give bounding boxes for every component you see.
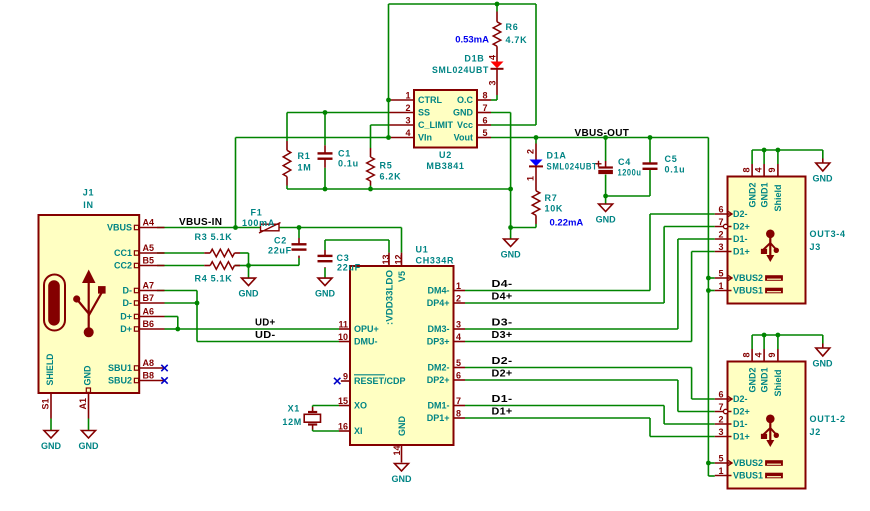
svg-text:D1B: D1B xyxy=(464,54,484,64)
wire D- B7 xyxy=(165,302,198,304)
wire C4 top xyxy=(605,138,607,162)
J3 pin 7 D2+ xyxy=(715,217,750,232)
svg-text:5: 5 xyxy=(718,454,723,464)
capacitor C2 22uF xyxy=(268,236,307,259)
svg-text:22uF: 22uF xyxy=(268,246,292,256)
svg-text:VBUS2: VBUS2 xyxy=(733,273,763,283)
svg-text:4: 4 xyxy=(753,167,763,172)
svg-text:CC1: CC1 xyxy=(114,248,132,258)
J1 pin A7 D- xyxy=(123,281,165,296)
svg-text:0.53mA: 0.53mA xyxy=(455,35,489,46)
svg-text:6: 6 xyxy=(718,390,723,400)
J1 no-connect X on SBU2 xyxy=(161,377,167,383)
wire C3 to VDD33 xyxy=(325,239,389,241)
resistor R1 1M xyxy=(283,141,311,186)
wire D+ B6 xyxy=(165,328,178,330)
svg-text:8: 8 xyxy=(456,409,461,419)
svg-text:DP2+: DP2+ xyxy=(427,375,450,385)
IC U1 CH334R xyxy=(350,245,454,446)
svg-text:Shield: Shield xyxy=(773,369,783,396)
svg-text:5: 5 xyxy=(718,269,723,279)
svg-text:12M: 12M xyxy=(282,417,302,427)
svg-text:OUT1-2: OUT1-2 xyxy=(810,414,846,424)
wire D1A top xyxy=(535,138,537,144)
junction xyxy=(386,98,391,103)
svg-text:UD+: UD+ xyxy=(255,318,276,329)
ground at R3/R4 xyxy=(239,278,260,299)
svg-text:2: 2 xyxy=(405,103,410,113)
svg-text:DM1-: DM1- xyxy=(428,401,450,411)
svg-text:2: 2 xyxy=(526,149,536,154)
svg-text:V5: V5 xyxy=(397,271,407,282)
svg-text:XO: XO xyxy=(354,401,367,411)
wire C5 bottom xyxy=(649,169,651,196)
J1 pin S1 SHIELD xyxy=(40,353,54,430)
svg-text:3: 3 xyxy=(456,320,461,330)
U2 pin 4 VIn xyxy=(390,128,433,143)
svg-text:J3: J3 xyxy=(810,242,821,252)
regulator U2 MB3841 xyxy=(414,90,477,171)
ground below U1 xyxy=(392,464,413,485)
svg-text:D1-: D1- xyxy=(492,394,513,405)
svg-text:UD-: UD- xyxy=(255,330,276,341)
svg-text:4.7K: 4.7K xyxy=(506,35,528,45)
svg-text:VBUS1: VBUS1 xyxy=(733,471,763,481)
svg-text:1: 1 xyxy=(526,176,536,181)
svg-text:1: 1 xyxy=(718,466,723,476)
wire O.C to LED chain xyxy=(491,99,497,101)
U1 pin 14 GND xyxy=(392,416,407,463)
junction xyxy=(508,225,513,230)
ground at C3 xyxy=(315,278,336,299)
junction xyxy=(495,2,500,7)
wire to J3 VBUS2 xyxy=(708,277,714,279)
svg-text:1M: 1M xyxy=(298,163,312,173)
svg-text:D1A: D1A xyxy=(547,151,567,161)
J3 pin 9 Shield xyxy=(767,150,783,212)
J2 pin 2 D1- xyxy=(715,415,748,430)
svg-text:A8: A8 xyxy=(143,358,155,368)
svg-text:CTRL: CTRL xyxy=(418,95,442,105)
svg-text:4: 4 xyxy=(488,55,498,60)
svg-text:D3+: D3+ xyxy=(492,330,513,341)
svg-text:VBUS2: VBUS2 xyxy=(733,458,763,468)
wire D2+ net xyxy=(465,379,678,381)
svg-text:DP3+: DP3+ xyxy=(427,337,450,347)
wire VBUS-OUT vertical to J3/J2 xyxy=(707,138,709,477)
junction xyxy=(776,333,781,338)
J1 pin A6 D+ xyxy=(120,307,164,322)
svg-text:GND: GND xyxy=(453,108,474,118)
svg-text:9: 9 xyxy=(343,372,348,382)
svg-text:D-: D- xyxy=(123,286,133,296)
J1 pin B5 CC2 xyxy=(114,256,165,271)
resistor R4 5.1K xyxy=(195,262,241,284)
svg-text:MB3841: MB3841 xyxy=(426,161,464,171)
junction xyxy=(776,148,781,153)
connector J2 OUT1-2 xyxy=(728,362,846,489)
svg-text:A1: A1 xyxy=(78,398,88,410)
junction xyxy=(706,288,711,293)
svg-text:13: 13 xyxy=(381,254,391,264)
svg-text:A4: A4 xyxy=(143,218,155,228)
ground at J1 S1 xyxy=(41,431,62,452)
wire C_LIMIT xyxy=(371,124,390,126)
svg-text:VBUS: VBUS xyxy=(107,223,132,233)
wire D4+ net xyxy=(465,302,664,304)
U1 pin 7 DM1- xyxy=(428,396,466,411)
ground below C4 xyxy=(596,204,617,225)
wire VBUS-IN left xyxy=(157,227,261,229)
svg-text:D1-: D1- xyxy=(733,234,748,244)
J3 pin 3 D1+ xyxy=(715,242,750,257)
svg-text:J2: J2 xyxy=(810,427,821,437)
svg-text:8: 8 xyxy=(741,352,751,357)
svg-text:9: 9 xyxy=(767,352,777,357)
svg-text:A5: A5 xyxy=(143,243,155,253)
J1 pin B8 SBU2 xyxy=(108,371,165,386)
svg-text:14: 14 xyxy=(392,445,402,455)
J2 pin 7 D2+ xyxy=(715,402,750,417)
svg-text:Vcc: Vcc xyxy=(457,120,473,130)
resistor R6 4.7K xyxy=(493,12,527,62)
wire D4- net xyxy=(465,290,650,292)
svg-text:GND: GND xyxy=(813,174,834,184)
svg-text:7: 7 xyxy=(483,103,488,113)
J1 pin A8 SBU1 xyxy=(108,358,165,373)
connector J1 IN (USB-C receptacle) xyxy=(39,188,140,394)
svg-text:15: 15 xyxy=(338,396,348,406)
wire C2 bottom xyxy=(298,258,300,265)
svg-text:DMU-: DMU- xyxy=(354,337,378,347)
ground below U2 xyxy=(501,239,522,260)
svg-text:4: 4 xyxy=(405,128,410,138)
wire VBUS-IN top bus xyxy=(389,3,537,5)
wire GND from pin7 xyxy=(491,112,511,114)
svg-text:X1: X1 xyxy=(288,404,300,414)
svg-text:4: 4 xyxy=(456,332,461,342)
U2 pin 6 Vcc xyxy=(457,116,491,131)
U1 pin 5 DM2- xyxy=(428,358,466,373)
wire XO xyxy=(313,405,339,407)
svg-text:VBUS-IN: VBUS-IN xyxy=(179,217,222,228)
svg-text:C1: C1 xyxy=(338,149,351,159)
junction xyxy=(762,148,767,153)
J2 pin 3 D1+ xyxy=(715,427,750,442)
svg-text:CC2: CC2 xyxy=(114,261,132,271)
U2 pin 5 Vout xyxy=(454,128,491,143)
U1 pin 12 V5 xyxy=(393,253,407,282)
junction xyxy=(195,301,200,306)
svg-text:D4-: D4- xyxy=(492,279,513,290)
svg-text:100mA: 100mA xyxy=(242,218,275,228)
J2 pin 1 VBUS1 xyxy=(715,466,783,481)
svg-text:A6: A6 xyxy=(143,307,155,317)
svg-text:D2-: D2- xyxy=(733,394,748,404)
wire C3 bottom xyxy=(324,268,326,278)
junction xyxy=(706,461,711,466)
U2 pin 8 O.C xyxy=(457,91,491,106)
J3 pin 6 D2- xyxy=(715,205,748,220)
svg-text:S1: S1 xyxy=(40,398,50,409)
wire UD+ xyxy=(178,328,339,330)
junction xyxy=(706,276,711,281)
junction xyxy=(762,333,767,338)
wire right vertical to Vcc xyxy=(535,4,537,125)
svg-text:U2: U2 xyxy=(439,150,452,160)
J1 pin A1 GND xyxy=(78,365,92,430)
wire C4 bottom to gnd xyxy=(605,175,607,205)
svg-text:4: 4 xyxy=(753,352,763,357)
connector J3 OUT3-4 xyxy=(728,177,846,304)
svg-text:GND: GND xyxy=(79,441,100,451)
U2 pin 1 CTRL xyxy=(390,91,443,106)
junction xyxy=(246,263,251,268)
svg-text:5: 5 xyxy=(456,358,461,368)
wire SS xyxy=(287,112,390,114)
svg-text:OPU+: OPU+ xyxy=(354,324,379,334)
wire top to R6 xyxy=(496,4,498,12)
svg-text:SHIELD: SHIELD xyxy=(45,353,55,385)
J3 pin 8 GND2 xyxy=(741,150,757,208)
svg-text:D2-: D2- xyxy=(733,209,748,219)
J1 pin A5 CC1 xyxy=(114,243,165,258)
wire to C1 top xyxy=(324,113,326,146)
capacitor C4 1200u (polarized) xyxy=(596,157,642,178)
junction xyxy=(508,187,513,192)
svg-text:DP4+: DP4+ xyxy=(427,298,450,308)
svg-text:R3 5.1K: R3 5.1K xyxy=(195,232,233,242)
svg-text:GND: GND xyxy=(596,215,617,225)
wire UD- vertical xyxy=(196,303,198,342)
svg-text:GND: GND xyxy=(239,289,260,299)
wire D1+ net xyxy=(465,417,650,419)
svg-text:10K: 10K xyxy=(545,204,564,214)
U2 pin 3 C_LIMIT xyxy=(390,116,454,131)
svg-text:D+: D+ xyxy=(120,312,132,322)
svg-text:GND: GND xyxy=(82,365,92,386)
wire ground bus under U2 xyxy=(287,188,511,190)
svg-text:D2+: D2+ xyxy=(733,222,750,232)
svg-text:7: 7 xyxy=(456,396,461,406)
svg-text:C_LIMIT: C_LIMIT xyxy=(418,120,454,130)
svg-text:2: 2 xyxy=(718,230,723,240)
svg-text:VBUS1: VBUS1 xyxy=(733,286,763,296)
J1 no-connect X on SBU1 xyxy=(161,365,167,371)
svg-text:2: 2 xyxy=(718,415,723,425)
wire C2 to R4 junction xyxy=(249,264,300,266)
J2 pin 9 Shield xyxy=(767,335,783,397)
capacitor C3 22uF xyxy=(318,250,361,273)
svg-text:SML024UBT: SML024UBT xyxy=(547,162,598,172)
ground at J2 xyxy=(813,348,834,369)
U1 pin 3 DM3- xyxy=(428,320,466,335)
svg-text:SML024UBT: SML024UBT xyxy=(432,65,489,75)
wire to R5 top xyxy=(370,125,372,148)
wire A6 to B6 xyxy=(177,317,179,330)
U2 pin 2 SS xyxy=(390,103,431,118)
U1 pin 15 XO xyxy=(338,396,367,411)
svg-text:J1: J1 xyxy=(83,188,94,198)
crystal X1 12M xyxy=(282,404,320,430)
svg-text:D+: D+ xyxy=(120,324,132,334)
wire to J2 VBUS2 xyxy=(708,462,714,464)
wire D+ A6 xyxy=(165,316,178,318)
svg-text:B6: B6 xyxy=(143,319,155,329)
wire to R1 top xyxy=(286,113,288,142)
J1 pin B6 D+ xyxy=(120,319,164,334)
wire left vertical to CTRL/VIn xyxy=(388,4,390,138)
svg-text:D2+: D2+ xyxy=(492,369,513,380)
svg-text:SS: SS xyxy=(418,108,430,118)
svg-text:IN: IN xyxy=(83,200,93,210)
svg-text:0.1u: 0.1u xyxy=(665,165,686,175)
svg-text:GND: GND xyxy=(41,441,62,451)
wire VBUS-IN right xyxy=(279,227,402,229)
svg-text:D3-: D3- xyxy=(492,318,513,329)
ground at J3 xyxy=(813,163,834,184)
svg-text:VBUS-OUT: VBUS-OUT xyxy=(575,128,630,139)
svg-text:16: 16 xyxy=(338,422,348,432)
svg-text:DM4-: DM4- xyxy=(428,286,450,296)
wire C5 top xyxy=(649,138,651,164)
wire VIn extension xyxy=(236,137,390,139)
fuse F1 100mA xyxy=(242,208,281,234)
svg-text:7: 7 xyxy=(718,402,723,412)
wire D- A7 xyxy=(157,290,197,292)
svg-text:10: 10 xyxy=(338,332,348,342)
U1 pin 13 VDD33LDO xyxy=(381,253,395,325)
J2 pin 8 GND2 xyxy=(741,335,757,393)
svg-text:GND1: GND1 xyxy=(759,367,769,392)
svg-text:R6: R6 xyxy=(506,22,519,32)
svg-text:D-: D- xyxy=(123,298,133,308)
wire D3+ net xyxy=(465,341,692,343)
svg-text:6: 6 xyxy=(456,371,461,381)
ground at J1 A1 xyxy=(79,431,100,452)
J3 pin 2 D1- xyxy=(715,230,748,245)
junction xyxy=(323,187,328,192)
svg-text:C2: C2 xyxy=(274,236,287,246)
wire D3- net xyxy=(465,328,678,330)
svg-text:VIn: VIn xyxy=(418,133,432,143)
junction xyxy=(323,110,328,115)
wire down to VBUS-IN xyxy=(235,138,237,228)
svg-text:Shield: Shield xyxy=(773,184,783,211)
junction xyxy=(175,327,180,332)
svg-text:SBU1: SBU1 xyxy=(108,363,132,373)
svg-text:3: 3 xyxy=(718,427,723,437)
wire to J3 VBUS1 xyxy=(708,290,714,292)
svg-text:D1+: D1+ xyxy=(733,247,750,257)
svg-text:D1+: D1+ xyxy=(733,432,750,442)
svg-text:XI: XI xyxy=(354,426,363,436)
svg-text:DP1+: DP1+ xyxy=(427,413,450,423)
wire D2- net xyxy=(465,367,692,369)
wire R3/R4 to gnd xyxy=(248,253,250,278)
junction xyxy=(233,225,238,230)
junction xyxy=(603,135,608,140)
svg-text::VDD33LDO: :VDD33LDO xyxy=(384,270,394,325)
capacitor C1 0.1u xyxy=(318,145,359,168)
svg-text:GND: GND xyxy=(315,289,336,299)
resistor R5 6.2K xyxy=(367,148,402,186)
svg-text:O.C: O.C xyxy=(457,95,474,105)
junction xyxy=(603,194,608,199)
LED D1A SML024UBT (blue) xyxy=(526,144,598,191)
svg-text:0.1u: 0.1u xyxy=(338,159,359,169)
wire CC1 to R3 xyxy=(157,252,204,254)
svg-text:3: 3 xyxy=(718,242,723,252)
U1 pin 4 DP3+ xyxy=(427,332,465,347)
wire C3 top xyxy=(324,240,326,250)
junction xyxy=(297,225,302,230)
U1 pin 2 DP4+ xyxy=(427,294,465,309)
U1 pin 11 OPU+ xyxy=(338,320,378,335)
svg-text:RESET/CDP: RESET/CDP xyxy=(354,376,406,386)
J1 pin A4 VBUS xyxy=(107,218,165,233)
svg-text:8: 8 xyxy=(483,91,488,101)
svg-text:GND: GND xyxy=(392,474,413,484)
J2 pin 4 GND1 xyxy=(753,335,769,393)
U1 pin 8 DP1+ xyxy=(427,409,465,424)
svg-text:1200u: 1200u xyxy=(618,168,642,178)
resistor R7 10K xyxy=(532,191,563,224)
svg-text:B7: B7 xyxy=(143,293,155,303)
svg-text:C5: C5 xyxy=(665,154,678,164)
wire CC2 to R4 xyxy=(157,265,204,267)
wire C4-C5 bottom xyxy=(606,195,650,197)
svg-text:GND: GND xyxy=(813,359,834,369)
wire UD- xyxy=(197,341,339,343)
svg-text:6.2K: 6.2K xyxy=(380,172,402,182)
svg-text:22uF: 22uF xyxy=(337,263,361,273)
svg-text:2: 2 xyxy=(456,294,461,304)
svg-text:5: 5 xyxy=(483,128,488,138)
svg-text:1: 1 xyxy=(718,281,723,291)
svg-text:3: 3 xyxy=(488,80,498,85)
svg-text:D1-: D1- xyxy=(733,419,748,429)
J3 pin 5 VBUS2 xyxy=(715,269,783,284)
J3 pin 1 VBUS1 xyxy=(715,281,783,296)
wire down to U1 V5 xyxy=(401,228,403,253)
resistor R3 5.1K xyxy=(195,232,241,257)
svg-text:CH334R: CH334R xyxy=(416,256,455,266)
wire C2 top xyxy=(298,228,300,239)
svg-text:B5: B5 xyxy=(143,256,155,266)
svg-text:DM2-: DM2- xyxy=(428,363,450,373)
wire to J2 VBUS1 xyxy=(708,475,714,477)
svg-text:B8: B8 xyxy=(143,371,155,381)
capacitor C5 0.1u xyxy=(643,154,686,175)
wire J2 ground bus xyxy=(752,334,823,336)
U1 pin 9 RESET/CDP xyxy=(334,372,406,387)
svg-text:DM3-: DM3- xyxy=(428,324,450,334)
wire A7 to B7 xyxy=(196,291,198,304)
svg-text:1: 1 xyxy=(405,91,410,101)
svg-text:U1: U1 xyxy=(416,245,429,255)
svg-text:GND1: GND1 xyxy=(759,182,769,207)
svg-text:D2-: D2- xyxy=(492,356,513,367)
wire R7 bottom xyxy=(535,224,537,228)
junction xyxy=(534,135,539,140)
svg-text:6: 6 xyxy=(718,205,723,215)
junction xyxy=(648,135,653,140)
svg-text:11: 11 xyxy=(338,320,348,330)
wire XI xyxy=(312,430,314,432)
svg-text:OUT3-4: OUT3-4 xyxy=(810,229,846,239)
svg-text:0.22mA: 0.22mA xyxy=(550,218,584,229)
